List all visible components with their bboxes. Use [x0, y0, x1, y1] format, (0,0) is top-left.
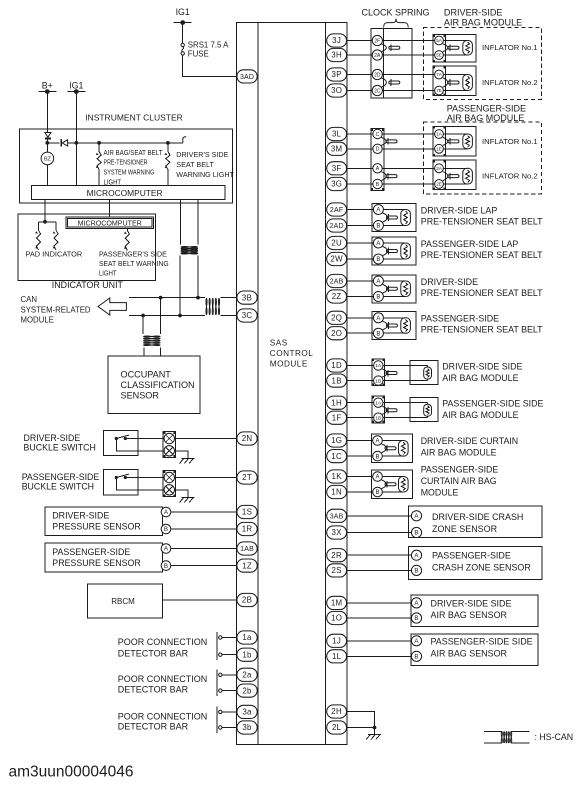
poor connection detector bar — [217, 706, 222, 733]
svg-text:INFLATOR No.1: INFLATOR No.1 — [482, 43, 538, 52]
svg-text:3P: 3P — [332, 70, 342, 79]
svg-text:B: B — [164, 563, 168, 570]
pin 3X — [327, 526, 347, 539]
terminal B — [411, 651, 421, 661]
svg-text:PASSENGER-SIDE: PASSENGER-SIDE — [22, 472, 100, 482]
wire pin 2Q — [347, 317, 374, 319]
wire pin 1H — [347, 402, 374, 404]
svg-text:2O: 2O — [331, 329, 342, 338]
lamp: pad indicator 1 — [35, 222, 40, 250]
wire pin 3F to in-line connector — [347, 167, 373, 169]
RBCM box — [88, 584, 163, 618]
wire to pin 1S — [171, 511, 237, 513]
label air bag warning light — [104, 148, 164, 187]
svg-text:1K: 1K — [332, 472, 343, 481]
wire to pin 3b — [222, 727, 237, 729]
pin 3b — [237, 721, 257, 734]
svg-text:DRIVER-SIDE CURTAIN: DRIVER-SIDE CURTAIN — [421, 436, 518, 446]
svg-text:AIR BAG MODULE: AIR BAG MODULE — [447, 113, 525, 123]
passenger-side air bag module dashed box — [423, 122, 541, 194]
lamp: air bag/seat belt warning light — [96, 143, 101, 185]
clock spring box — [371, 29, 412, 99]
wire pin 2L to ground — [347, 727, 375, 729]
svg-text:1L: 1L — [332, 652, 342, 661]
pair bulge — [382, 480, 387, 489]
svg-text:3X: 3X — [332, 528, 343, 537]
connector symbol (inflator) — [448, 79, 459, 86]
label PASSENGER-SIDE — [421, 465, 499, 498]
pin 2a — [237, 668, 257, 681]
side air bag module box — [410, 360, 438, 384]
svg-text:MICROCOMPUTER: MICROCOMPUTER — [78, 220, 142, 228]
microcomputer bar (instrument cluster) — [32, 185, 225, 199]
label DRIVER-SIDE SIDE — [431, 598, 512, 620]
PASSENGER-SIDE pressure sensor box — [45, 543, 163, 572]
pin 3P — [327, 68, 347, 81]
wire pin 3G to in-line connector — [347, 183, 373, 185]
PASSENGER-SIDE box — [409, 546, 542, 579]
connector symbol — [386, 285, 397, 292]
svg-text:B: B — [414, 568, 418, 575]
svg-text:INDICATOR UNIT: INDICATOR UNIT — [52, 280, 124, 290]
buzzer BZ — [41, 152, 54, 165]
svg-text:B: B — [376, 224, 380, 230]
svg-text:A: A — [376, 241, 380, 247]
pair bulge — [382, 444, 387, 453]
terminal A — [411, 511, 421, 521]
pin 1C — [327, 450, 347, 463]
connector pins 2F/2A (clock spring) — [372, 35, 386, 60]
ground (buckle switch) — [180, 497, 195, 502]
svg-text:BUCKLE SWITCH: BUCKLE SWITCH — [24, 443, 96, 453]
fuse SRS1 7.5 A — [181, 41, 229, 59]
svg-text:PASSENGER-SIDE SIDE: PASSENGER-SIDE SIDE — [442, 399, 543, 409]
svg-text:2B: 2B — [242, 596, 252, 605]
in-line connector (side air bag) — [372, 396, 387, 423]
curtain module box — [372, 434, 413, 463]
wire pin 3O to clock spring 2C — [347, 90, 373, 92]
terminal A — [411, 598, 421, 608]
svg-text:MODULE: MODULE — [421, 488, 459, 498]
wire warning-light bus — [47, 141, 183, 145]
label DRIVER-SIDE — [421, 277, 543, 298]
terminal A — [411, 636, 421, 646]
pin 3a — [237, 705, 257, 718]
PASSENGER-SIDE LAP box — [372, 237, 416, 265]
svg-text:A: A — [375, 439, 379, 445]
microcomputer bar (indicator unit) — [66, 217, 154, 228]
wire to pin 3a — [222, 711, 237, 713]
svg-text:3O: 3O — [331, 86, 342, 95]
label passenger-side buckle switch — [22, 472, 100, 492]
svg-text:SAS: SAS — [270, 339, 288, 348]
svg-text:INFLATOR No.2: INFLATOR No.2 — [482, 172, 538, 181]
PASSENGER-SIDE BUCKLE SWITCH box — [104, 470, 138, 495]
connector symbol — [386, 138, 397, 145]
svg-text:MICROCOMPUTER: MICROCOMPUTER — [87, 188, 163, 198]
svg-text:1N: 1N — [331, 488, 342, 497]
pin 2O — [327, 327, 347, 340]
svg-text:CAN: CAN — [21, 295, 37, 304]
label poor connection detector bar — [118, 674, 208, 694]
poor connection detector bar — [217, 669, 222, 696]
svg-text:3B: 3B — [242, 293, 252, 302]
wire pin 1B — [347, 380, 374, 382]
pin 3H — [327, 48, 347, 61]
connector symbol (clock spring) — [389, 44, 400, 51]
lamp: pad indicator 2 — [53, 222, 58, 250]
svg-text:AIR BAG MODULE: AIR BAG MODULE — [421, 448, 497, 458]
wire buckle connector to pin 2T — [175, 477, 237, 479]
svg-text:SYSTEM WARNING: SYSTEM WARNING — [104, 168, 155, 177]
pin 2T — [237, 471, 257, 484]
svg-text:3M: 3M — [331, 145, 343, 154]
svg-text:1Z: 1Z — [242, 561, 252, 570]
inflator connector 5A/5E — [433, 35, 476, 62]
svg-text:PASSENGER'S SIDE: PASSENGER'S SIDE — [99, 249, 167, 258]
label PASSENGER-SIDE LAP — [421, 239, 543, 260]
label passenger-side air bag module — [447, 103, 526, 123]
connector symbol (inflator) — [448, 44, 459, 51]
node 2L/ground junction — [373, 726, 377, 730]
terminal A (pressure sensor) — [161, 507, 171, 517]
ground (buckle switch) — [180, 458, 195, 463]
svg-text:IG1: IG1 — [176, 7, 190, 17]
svg-text:1b: 1b — [242, 650, 252, 659]
svg-text:1E: 1E — [436, 146, 442, 151]
wire pin 2AF — [347, 209, 374, 211]
label poor connection detector bar — [118, 637, 208, 659]
DRIVER-SIDE SIDE box — [411, 595, 538, 627]
svg-text:DRIVER-SIDE CRASH: DRIVER-SIDE CRASH — [432, 512, 523, 522]
svg-text:2W: 2W — [330, 255, 343, 264]
wire in-line connector to inflator — [382, 133, 434, 135]
svg-text:PASSENGER-SIDE LAP: PASSENGER-SIDE LAP — [421, 239, 519, 249]
svg-text:A: A — [375, 475, 379, 481]
pin 3L — [327, 127, 347, 140]
svg-text:PRE-TENSIONER SEAT BELT: PRE-TENSIONER SEAT BELT — [421, 325, 543, 335]
svg-text:: HS-CAN: : HS-CAN — [535, 732, 574, 742]
pin 2AD — [327, 219, 347, 232]
svg-text:AIR BAG MODULE: AIR BAG MODULE — [442, 373, 518, 383]
svg-text:2N: 2N — [242, 434, 253, 443]
svg-text:RBCM: RBCM — [111, 597, 135, 606]
pin 3G — [327, 177, 347, 190]
svg-text:3J: 3J — [332, 36, 341, 45]
pin 2H — [327, 705, 347, 718]
svg-text:2U: 2U — [331, 239, 342, 248]
twisted pair to SAS (CAN) — [206, 298, 207, 315]
label DRIVER-SIDE CRASH — [432, 512, 523, 534]
terminal B — [373, 328, 383, 338]
svg-text:DRIVER-SIDE: DRIVER-SIDE — [24, 433, 81, 443]
svg-text:7A: 7A — [436, 72, 443, 77]
svg-text:AIR BAG SENSOR: AIR BAG SENSOR — [431, 610, 508, 620]
squib (curtain) — [382, 441, 408, 457]
wire pin 3AB — [347, 515, 412, 517]
svg-text:2AD: 2AD — [330, 223, 344, 230]
diode D1 (zener, B+ branch) — [45, 133, 51, 139]
pin 2Z — [327, 290, 347, 303]
wire microcomputer to pad indicators — [39, 200, 57, 224]
pin 1K — [327, 470, 347, 483]
wire pin 1O — [347, 617, 412, 619]
wire to pin 1a — [222, 637, 237, 639]
squib (pre-tensioner) — [383, 243, 410, 259]
wire pin 2W — [347, 258, 374, 260]
power IG1 (cluster) — [67, 80, 85, 94]
pin 3F — [327, 162, 347, 175]
diode D2 (bus) — [59, 139, 68, 146]
svg-text:1O: 1O — [331, 614, 342, 623]
svg-text:DRIVER-SIDE SIDE: DRIVER-SIDE SIDE — [442, 361, 522, 371]
svg-text:2AF: 2AF — [330, 207, 343, 214]
label PASSENGER-SIDE SIDE — [442, 399, 543, 421]
wire pin 3X — [347, 532, 412, 534]
svg-text:C: C — [376, 132, 380, 138]
pin 2U — [327, 236, 347, 249]
pin 3AB — [327, 509, 347, 522]
svg-text:PRE-TENSIONER: PRE-TENSIONER — [104, 158, 148, 167]
pin 1b — [237, 648, 257, 661]
svg-text:B: B — [376, 257, 380, 263]
svg-text:PRE-TENSIONER SEAT BELT: PRE-TENSIONER SEAT BELT — [421, 250, 543, 260]
svg-text:1B: 1B — [375, 415, 381, 421]
svg-text:3AD: 3AD — [240, 74, 254, 81]
svg-text:2a: 2a — [242, 671, 252, 680]
pin 2AF — [327, 203, 347, 216]
wire pin 3P to clock spring 2D — [347, 74, 373, 76]
pin 1Z — [237, 559, 257, 572]
svg-text:D: D — [376, 147, 380, 153]
terminal B — [373, 451, 383, 461]
wire in-line connector to inflator — [382, 183, 434, 185]
wire pin 3L to in-line connector — [347, 133, 373, 135]
svg-text:DRIVER-SIDE: DRIVER-SIDE — [421, 277, 478, 287]
pin 1O — [327, 611, 347, 624]
seat belt switch (driver) — [183, 137, 186, 143]
wire pin 1G — [347, 440, 373, 442]
terminal A — [373, 472, 383, 482]
svg-text:A: A — [376, 316, 380, 322]
lamp: driver's side seat belt warning light — [165, 143, 170, 185]
wire pin 1C — [347, 455, 373, 457]
svg-text:1S: 1S — [242, 508, 252, 517]
wire buckle connector to pin 2N — [175, 438, 237, 440]
side air bag module box — [410, 397, 438, 421]
pin 1AB — [237, 542, 257, 555]
power B+ — [38, 80, 56, 94]
svg-text:AIR BAG MODULE: AIR BAG MODULE — [442, 410, 518, 420]
occupant classification sensor box — [108, 356, 200, 413]
svg-text:DRIVER-SIDE LAP: DRIVER-SIDE LAP — [421, 206, 498, 216]
wire buckle to connector — [138, 439, 164, 451]
svg-text:PRE-TENSIONER SEAT BELT: PRE-TENSIONER SEAT BELT — [421, 217, 543, 227]
svg-text:POOR CONNECTION: POOR CONNECTION — [118, 637, 208, 647]
pair bulge — [383, 284, 388, 293]
svg-text:1A: 1A — [375, 363, 382, 369]
svg-text:DETECTOR BAR: DETECTOR BAR — [118, 649, 189, 659]
svg-text:BZ: BZ — [44, 157, 52, 163]
label driver's side seat belt warning light — [176, 150, 234, 179]
terminal A (pressure sensor) — [161, 544, 171, 554]
pin 2B — [237, 593, 257, 606]
svg-text:1D: 1D — [331, 361, 342, 370]
wire B+ down into cluster — [46, 92, 48, 133]
wire pin 1M — [347, 602, 412, 604]
svg-text:2C: 2C — [374, 88, 381, 94]
svg-text:2L: 2L — [332, 723, 342, 732]
terminal B (pressure sensor) — [161, 561, 171, 571]
svg-text:DRIVER-SIDE SIDE: DRIVER-SIDE SIDE — [431, 598, 512, 608]
svg-text:B: B — [414, 654, 418, 661]
wire connector to ground — [175, 451, 188, 459]
wire pin 1J — [347, 640, 412, 642]
svg-text:2R: 2R — [331, 551, 342, 560]
pin 2W — [327, 252, 347, 265]
svg-text:SENSOR: SENSOR — [121, 391, 160, 401]
label driver-side air bag module — [444, 8, 522, 28]
wire pin 3H to clock spring 2A — [347, 54, 373, 56]
pin 1G — [327, 434, 347, 447]
terminal A — [373, 205, 383, 215]
connector symbol — [386, 214, 397, 221]
svg-text:5E: 5E — [436, 53, 442, 58]
svg-text:BUCKLE SWITCH: BUCKLE SWITCH — [22, 482, 94, 492]
svg-text:LIGHT: LIGHT — [99, 269, 117, 278]
svg-text:3a: 3a — [242, 708, 252, 717]
SAS control module box — [236, 23, 346, 745]
svg-text:POOR CONNECTION: POOR CONNECTION — [118, 711, 208, 721]
svg-text:PASSENGER-SIDE: PASSENGER-SIDE — [421, 465, 499, 475]
pin 1J — [327, 634, 347, 647]
wire buzzer to microcomputer — [46, 165, 48, 186]
svg-text:3AB: 3AB — [330, 513, 344, 520]
DRIVER-SIDE pressure sensor box — [45, 507, 163, 536]
wire diode to buzzer — [45, 137, 49, 152]
DRIVER-SIDE BUCKLE SWITCH box — [104, 430, 138, 455]
pin 1F — [327, 411, 347, 424]
pin 1N — [327, 485, 347, 498]
pin 1B — [327, 374, 347, 387]
wire pin 1K — [347, 476, 373, 478]
svg-text:1A: 1A — [375, 400, 382, 406]
svg-text:1B: 1B — [332, 376, 342, 385]
connector pins C/D — [373, 129, 386, 153]
wire to pin 2b — [222, 690, 237, 692]
connector symbol (clock spring) — [389, 79, 400, 86]
PASSENGER-SIDE box — [372, 312, 416, 340]
in-line connector (side air bag) — [372, 359, 387, 386]
terminal B — [373, 254, 383, 264]
squib (side air bag) — [383, 403, 432, 418]
svg-text:3L: 3L — [332, 130, 342, 139]
curtain module box — [372, 470, 413, 499]
svg-text:2A: 2A — [436, 166, 443, 171]
connector symbol (side air bag) — [386, 370, 397, 377]
terminal B — [411, 613, 421, 623]
inflator connector 2A/2E — [433, 160, 476, 190]
power IG1 (fuse feed) — [174, 7, 192, 25]
PASSENGER-SIDE SIDE box — [411, 634, 538, 666]
wire to pin 1b — [222, 654, 237, 656]
DRIVER-SIDE box — [372, 275, 416, 303]
wire pin 2Z — [347, 296, 374, 298]
pin 1D — [327, 359, 347, 372]
terminal B — [411, 527, 421, 537]
wire pin 2AD — [347, 225, 374, 227]
terminal B — [411, 565, 421, 575]
wire pin 2S — [347, 569, 412, 571]
svg-text:AIR BAG MODULE: AIR BAG MODULE — [444, 17, 522, 27]
svg-text:PASSENGER-SIDE: PASSENGER-SIDE — [447, 103, 526, 113]
squib INFLATOR No.1 — [444, 134, 473, 149]
pin 3O — [327, 84, 347, 97]
wire pin 1F — [347, 417, 374, 419]
connector symbol — [386, 173, 397, 180]
svg-text:1F: 1F — [332, 413, 342, 422]
connector symbol (inflator) — [448, 138, 459, 145]
wire to pin 1AB — [171, 548, 237, 550]
svg-text:B: B — [414, 615, 418, 622]
squib INFLATOR No.2 — [444, 75, 473, 91]
wire IG1 down to microcomputer — [75, 92, 77, 186]
terminal B — [373, 487, 383, 497]
wire in-line connector to inflator — [382, 167, 434, 169]
poor connection detector bar — [217, 632, 222, 660]
pin 2AB — [327, 274, 347, 287]
label passenger's side seat belt warning light — [99, 249, 169, 277]
pair bulge — [383, 246, 388, 255]
pin 1L — [327, 650, 347, 663]
svg-text:3b: 3b — [242, 723, 252, 732]
terminal A — [373, 436, 383, 446]
wire microcomputer to indicator-unit microcomputer — [109, 200, 111, 218]
wire pin 1L — [347, 655, 412, 657]
label PASSENGER-SIDE — [421, 314, 543, 335]
svg-text:2D: 2D — [374, 72, 381, 78]
svg-text:SEAT BELT: SEAT BELT — [176, 160, 214, 169]
svg-text:1R: 1R — [242, 525, 253, 534]
wire pin 2AB — [347, 280, 374, 282]
svg-text:B: B — [376, 295, 380, 301]
svg-text:ZONE SENSOR: ZONE SENSOR — [432, 524, 498, 534]
connector symbol — [386, 322, 397, 329]
svg-text:B: B — [376, 182, 380, 188]
svg-text:MODULE: MODULE — [270, 359, 308, 368]
connector symbol — [386, 248, 397, 255]
pin 3J — [327, 34, 347, 47]
pin 2Q — [327, 311, 347, 324]
svg-text:B+: B+ — [42, 80, 53, 90]
svg-text:INSTRUMENT CLUSTER: INSTRUMENT CLUSTER — [85, 113, 183, 123]
indicator unit box — [18, 214, 156, 290]
svg-text:MODULE: MODULE — [21, 316, 54, 325]
connector symbol — [385, 445, 396, 452]
svg-text:2F: 2F — [374, 38, 380, 44]
svg-text:1C: 1C — [331, 452, 342, 461]
squib INFLATOR No.1 — [444, 41, 473, 56]
terminal A — [373, 313, 383, 323]
pin 1H — [327, 396, 347, 409]
pin 3M — [327, 142, 347, 155]
wire connector to ground — [175, 490, 188, 498]
wire clock spring 2C to inflator — [382, 90, 434, 92]
svg-text:PRESSURE SENSOR: PRESSURE SENSOR — [52, 521, 140, 531]
svg-text:1G: 1G — [331, 436, 342, 445]
svg-text:DRIVER'S SIDE: DRIVER'S SIDE — [176, 150, 228, 159]
driver-side air bag module dashed box — [423, 28, 541, 100]
